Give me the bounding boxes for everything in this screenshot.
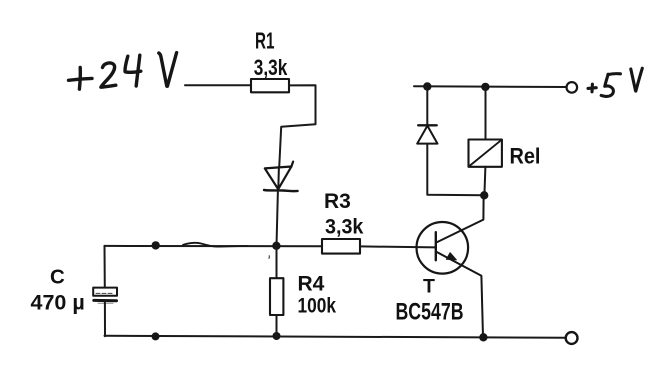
junction dot top rail at diode D2 bbox=[423, 82, 431, 90]
wire R3 to transistor base bbox=[360, 246, 436, 247]
relay Rel box bbox=[469, 140, 502, 167]
svg-text:R4: R4 bbox=[298, 272, 325, 295]
wire hand-drawn squiggle over middle rail bbox=[183, 243, 248, 247]
wire relay bottom to collector node bbox=[484, 167, 485, 195]
diode D1 bbox=[264, 162, 298, 192]
node +5V handwritten label bbox=[588, 68, 642, 96]
wire diode D2 down and right to collector node bbox=[427, 144, 484, 196]
junction dot top rail at relay bbox=[481, 83, 489, 91]
junction dot bottom left bbox=[152, 332, 160, 340]
svg-text:T: T bbox=[423, 275, 435, 297]
ink speck near R4 bbox=[268, 256, 270, 258]
transistor T emitter arrowhead bbox=[446, 253, 456, 260]
wire from R1 right side with jog down to diode D1 bbox=[279, 85, 315, 167]
terminal open circle bottom right bbox=[566, 332, 578, 344]
transistor T circle bbox=[417, 222, 469, 274]
svg-text:470 µ: 470 µ bbox=[31, 290, 85, 314]
junction node dot left on middle rail bbox=[152, 241, 160, 249]
resistor R4 bbox=[270, 278, 283, 315]
wire from D1 cathode down to center node bbox=[277, 191, 278, 246]
wire R4 bottom to bottom rail bbox=[276, 315, 278, 336]
wire from capacitor down to bottom rail bbox=[104, 302, 106, 336]
svg-text:3,3k: 3,3k bbox=[254, 56, 287, 81]
diode D2 cathode bar bbox=[418, 124, 437, 126]
resistor R3 bbox=[322, 239, 360, 254]
wire rail down to relay bbox=[485, 87, 487, 140]
svg-text:R3: R3 bbox=[324, 190, 351, 213]
transistor T emitter stroke bbox=[436, 252, 483, 337]
junction dot bottom right (emitter) bbox=[479, 333, 487, 341]
junction node dot center (base node) bbox=[272, 242, 280, 250]
wire top right +5V rail bbox=[414, 85, 566, 88]
svg-text:BC547B: BC547B bbox=[396, 299, 464, 325]
capacitor C top plate bbox=[93, 288, 117, 296]
diode D2 triangle bbox=[417, 126, 437, 144]
svg-text:C: C bbox=[50, 265, 65, 288]
junction dot collector node bbox=[480, 191, 488, 199]
svg-text:3,3k: 3,3k bbox=[325, 216, 364, 239]
transistor T base bar bbox=[435, 232, 437, 260]
terminal open circle +5V bbox=[567, 82, 578, 93]
wire from +24V to R1 bbox=[185, 84, 251, 86]
svg-text:R1: R1 bbox=[255, 29, 275, 55]
wire center node down to R4 bbox=[276, 246, 278, 278]
capacitor C plate artifact line bbox=[96, 292, 114, 294]
capacitor C bottom plate bbox=[94, 299, 117, 302]
wire middle horizontal rail left part bbox=[105, 245, 323, 247]
svg-text:Rel: Rel bbox=[510, 145, 541, 169]
transistor T collector stroke bbox=[436, 195, 483, 242]
svg-text:100k: 100k bbox=[298, 295, 337, 318]
wire left drop to capacitor C bbox=[104, 246, 106, 288]
wire bottom rail bbox=[105, 336, 567, 338]
relay Rel diagonal bbox=[469, 140, 502, 167]
resistor R1 bbox=[251, 79, 289, 92]
wire rail down to diode D2 bbox=[426, 87, 428, 126]
node +24V handwritten label bbox=[69, 53, 177, 90]
junction dot bottom center bbox=[273, 332, 281, 340]
capacitor C bottom plate artifact bbox=[98, 302, 113, 304]
